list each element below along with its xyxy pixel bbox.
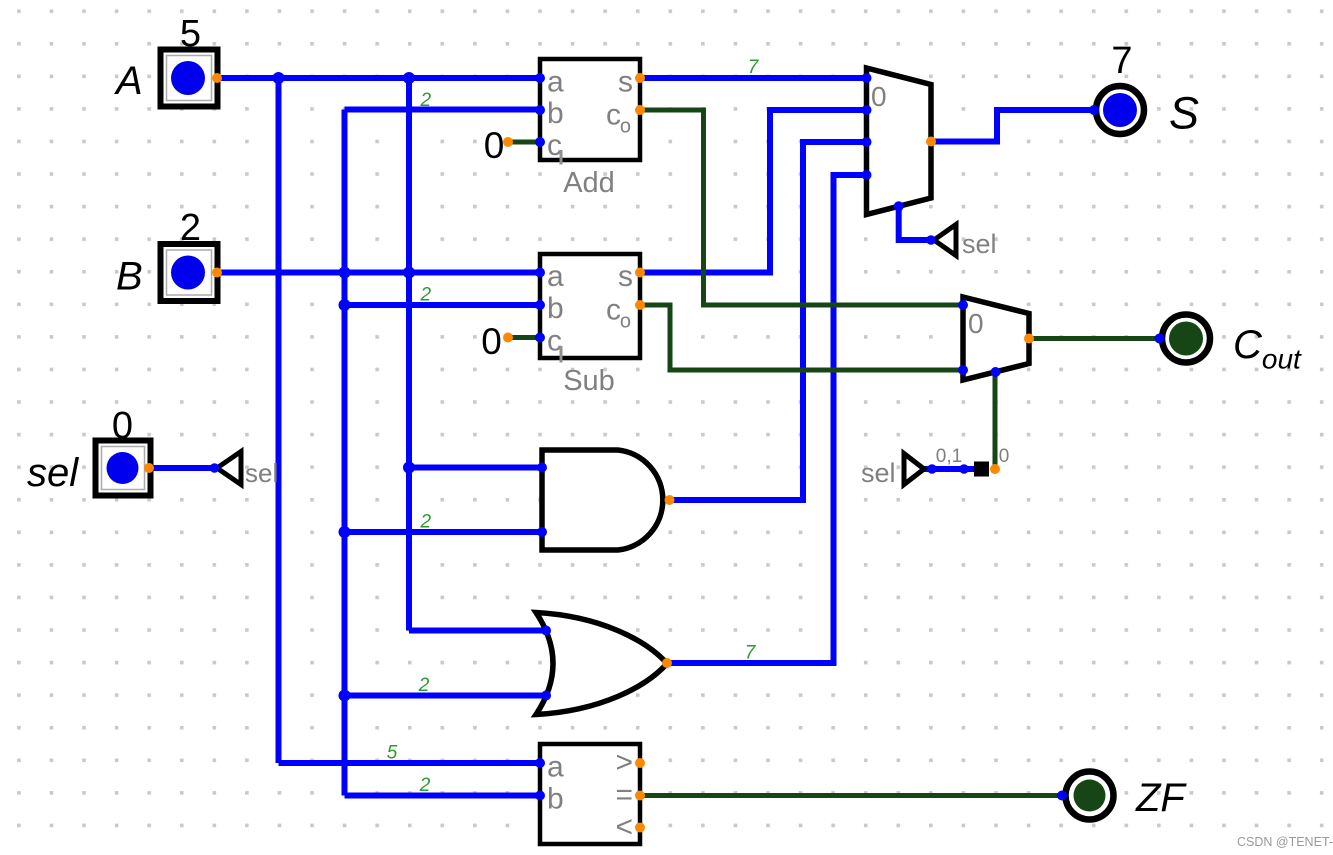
junction B row col2 — [403, 267, 415, 279]
subtractor Sub body — [540, 254, 640, 358]
input B output pin — [212, 268, 222, 278]
mux U1 sel pin dot — [894, 201, 904, 211]
junction Sub b row — [339, 299, 351, 311]
svg-text:b: b — [547, 783, 564, 816]
AND input 1 dot — [537, 463, 547, 473]
wire Add b input row — [345, 107, 541, 113]
output Cout pin dot — [1155, 334, 1165, 344]
Sub pin label ci stem — [560, 346, 563, 363]
svg-text:=: = — [615, 779, 633, 812]
wire OR out to mux U1 input 3 — [667, 175, 867, 663]
Add pin b dot — [535, 105, 545, 115]
Add pin label ci stem — [560, 150, 563, 165]
wire AND out to mux U1 input 2 — [670, 142, 867, 500]
svg-text:7: 7 — [745, 643, 757, 664]
output Cout ring — [1162, 315, 1210, 363]
mux U2 sel pin dot — [991, 367, 1001, 377]
svg-text:7: 7 — [748, 57, 760, 78]
input A output pin — [212, 73, 222, 83]
output S ring — [1096, 86, 1144, 134]
mux U2 output dot — [1024, 334, 1034, 344]
junction AND in1 — [403, 462, 415, 474]
multiplexer U1 — [867, 68, 932, 215]
Add pin s dot — [635, 73, 645, 83]
wire sel input to tunnel — [150, 465, 217, 471]
wire constant 0 to Add c_i — [508, 140, 540, 145]
constant 0 Sub pin — [503, 333, 513, 343]
wire tunnel to splitter — [924, 466, 974, 472]
svg-text:2: 2 — [420, 90, 432, 111]
OR output dot — [662, 658, 672, 668]
wire constant 0 to Sub c_i — [508, 335, 540, 340]
wire Sub s to mux U1 input 1 — [640, 110, 867, 273]
svg-text:b: b — [547, 97, 564, 130]
Add pin c dot — [535, 137, 545, 147]
Sub pin a dot — [535, 268, 545, 278]
tunnel T1 pin dot — [210, 463, 220, 473]
svg-text:Add: Add — [563, 167, 615, 199]
tunnel sel T1 — [217, 452, 241, 485]
comparator pin eq dot — [635, 791, 645, 801]
mux U2 in0 dot — [958, 300, 968, 310]
comparator body — [540, 744, 640, 844]
wire A output row — [218, 75, 540, 81]
tunnel T3 pin dot — [927, 464, 937, 474]
mux U1 in3 dot — [862, 170, 872, 180]
svg-text:S: S — [1169, 88, 1199, 139]
input sel box — [96, 441, 151, 496]
svg-text:7: 7 — [1111, 40, 1132, 82]
svg-text:5: 5 — [387, 743, 398, 764]
svg-text:2: 2 — [420, 512, 432, 533]
wire OR gate input 1 — [409, 628, 546, 634]
wire mux U2 output to Cout — [1029, 336, 1159, 341]
tunnel T2 pin dot — [926, 235, 936, 245]
tunnel sel T3 — [904, 454, 924, 485]
wire mux U1 output to S — [931, 110, 1093, 142]
svg-text:o: o — [620, 116, 631, 138]
svg-text:a: a — [547, 260, 564, 293]
svg-text:a: a — [547, 66, 564, 99]
svg-text:s: s — [618, 66, 633, 99]
svg-text:a: a — [547, 751, 564, 784]
junction B row col1 — [339, 267, 351, 279]
wire A vertical to comparator — [276, 78, 282, 763]
OR input 1 dot — [541, 626, 551, 636]
Sub pin b dot — [535, 300, 545, 310]
junction A row col1 — [273, 72, 285, 84]
svg-text:Sub: Sub — [563, 365, 615, 397]
svg-text:0: 0 — [968, 308, 984, 339]
wire Sub c_o to mux U2 input 1 — [640, 305, 963, 370]
junction OR in2 — [339, 690, 351, 702]
Add pin co dot — [635, 105, 645, 115]
tunnel sel T2 — [934, 225, 956, 256]
input A box — [161, 50, 218, 107]
wire Sub b input row — [345, 302, 541, 308]
svg-text:b: b — [547, 292, 564, 325]
svg-text:o: o — [620, 311, 631, 333]
svg-text:0: 0 — [871, 81, 887, 112]
svg-text:2: 2 — [418, 675, 430, 696]
AND gate — [542, 450, 663, 550]
comparator pin gt dot — [635, 758, 645, 768]
svg-text:sel: sel — [861, 458, 896, 488]
wire AND gate input 2 — [345, 529, 543, 535]
output S pin dot — [1089, 105, 1099, 115]
svg-text:CSDN @TENET-: CSDN @TENET- — [1237, 835, 1333, 849]
comparator pin lt dot — [635, 823, 645, 833]
svg-text:sel: sel — [962, 229, 997, 259]
svg-text:0: 0 — [112, 405, 133, 447]
comparator pin a dot — [535, 758, 545, 768]
junction A row col2 — [403, 72, 415, 84]
mux U1 in0 dot — [862, 73, 872, 83]
wire Add s to mux U1 input 0 — [640, 75, 867, 81]
wire B output row — [218, 270, 540, 276]
mux U1 in2 dot — [862, 137, 872, 147]
splitter body — [974, 462, 989, 477]
svg-text:0: 0 — [481, 321, 502, 362]
OR gate — [536, 613, 667, 715]
input sel output pin — [144, 463, 154, 473]
wire mux U1 sel to tunnel — [899, 206, 931, 240]
Sub pin s dot — [635, 268, 645, 278]
svg-text:2: 2 — [420, 285, 432, 306]
svg-text:0: 0 — [999, 446, 1010, 467]
wire OR gate input 2 — [345, 693, 547, 699]
svg-text:>: > — [615, 746, 633, 779]
wire AND gate input 1 — [409, 465, 542, 471]
output ZF ring — [1066, 772, 1114, 820]
wire comparator a input row — [279, 760, 541, 766]
svg-text:B: B — [116, 255, 143, 299]
adder Add body — [540, 59, 640, 160]
svg-text:s: s — [618, 260, 633, 293]
wire comparator b input row — [345, 793, 541, 799]
wire Add c_o to mux U2 input 0 — [640, 110, 963, 305]
splitter input dot — [959, 464, 969, 474]
junction AND in2 — [339, 526, 351, 538]
wire splitter to mux U2 sel — [993, 372, 998, 469]
AND output dot — [665, 495, 675, 505]
svg-text:2: 2 — [419, 775, 431, 796]
comparator pin b dot — [535, 791, 545, 801]
constant 0 Add pin — [503, 137, 513, 147]
svg-text:sel: sel — [27, 451, 79, 495]
mux U2 in1 dot — [958, 365, 968, 375]
svg-text:<: < — [615, 811, 633, 844]
AND input 2 dot — [537, 527, 547, 537]
wire A second vertical — [406, 78, 412, 631]
wire B long vertical — [342, 110, 348, 796]
splitter output pin — [990, 464, 1000, 474]
svg-text:0: 0 — [484, 125, 505, 166]
mux U1 output dot — [926, 137, 936, 147]
Sub pin co dot — [635, 300, 645, 310]
svg-text:c: c — [606, 99, 621, 132]
svg-text:0,1: 0,1 — [936, 446, 962, 467]
svg-text:2: 2 — [180, 207, 201, 249]
output ZF pin dot — [1057, 791, 1067, 801]
input B box — [161, 244, 218, 301]
svg-text:ZF: ZF — [1135, 776, 1187, 820]
mux U1 in1 dot — [862, 105, 872, 115]
multiplexer U2 — [963, 297, 1029, 380]
Sub pin c dot — [535, 333, 545, 343]
svg-text:sel: sel — [245, 458, 278, 488]
svg-text:A: A — [114, 59, 143, 103]
Add pin a dot — [535, 73, 545, 83]
wire comparator eq to ZF — [640, 793, 1066, 798]
svg-text:c: c — [606, 294, 621, 327]
svg-text:5: 5 — [180, 13, 201, 55]
OR input 2 dot — [541, 691, 551, 701]
